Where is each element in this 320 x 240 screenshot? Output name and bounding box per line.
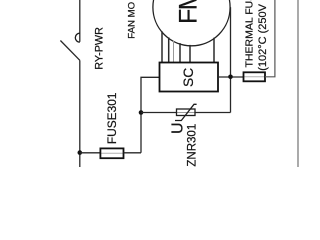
svg-text:M: M [174,0,202,10]
wire: junction to ZNR301 [141,112,177,114]
relay RY-PWR blade [60,41,79,61]
varistor ZNR301 body [177,109,196,116]
svg-text:(102°C (250V: (102°C (250V [257,3,269,70]
wire through varistor body [177,112,196,114]
motor lead 6 [213,38,215,63]
wire: RY-PWR top feed [79,0,81,42]
speed controller SC box [160,63,219,92]
svg-text:U: U [170,122,187,134]
wire: SC box right to thermal junction [218,76,244,78]
svg-text:ZNR301: ZNR301 [186,124,198,167]
wire: right border line [297,0,299,167]
motor lead 4 [179,43,181,62]
thermal fuse body [244,72,266,81]
svg-text:FAN MO: FAN MO [126,2,137,39]
relay contact terminal (semicircle) [75,33,80,42]
fan motor FM circle [153,0,230,46]
fuse FUSE301 body [100,148,123,158]
motor lead 3 [173,40,175,62]
svg-text:FUSE301: FUSE301 [105,92,119,144]
node: junction at fuse branch [78,150,83,155]
svg-text:THERMAL FUSE: THERMAL FUSE [244,0,256,68]
wire: junction to FUSE301 [80,152,101,154]
svg-text:RY-PWR: RY-PWR [93,27,105,70]
wire: motor right tangent down to thermal junction [230,7,232,76]
wire: fuse to riser [124,152,142,154]
varistor strike line [175,104,197,120]
node: thermal junction [228,75,233,80]
svg-text:SC: SC [181,68,196,87]
wire: switch to fuse junction [79,60,81,167]
motor lead 1 [161,31,163,62]
wire through thermal fuse body [244,76,266,78]
wire: ZNR301 to right riser [195,112,231,114]
motor lead 2 [168,37,170,62]
node: junction at ZNR branch [139,110,144,115]
wire: right riser up to thermal junction [230,77,232,113]
motor lead 5 [189,45,191,63]
wire through fuse body [100,152,123,154]
wire: thermal fuse to right riser [265,0,275,77]
wire: riser to SC box left [141,77,160,153]
